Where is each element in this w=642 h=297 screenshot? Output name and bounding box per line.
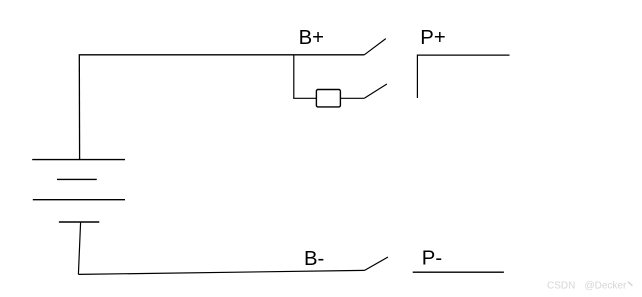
wire: precharge branch horizontal to resistor <box>293 97 316 99</box>
svg-text:P+: P+ <box>420 27 445 49</box>
svg-text:B-: B- <box>304 248 324 270</box>
battery BT1 long plate (second cell) <box>33 199 125 201</box>
battery BT1 long plate (top, +) <box>32 159 125 161</box>
switch K1 blade (B+ main contactor, open) <box>364 39 386 55</box>
wire: top bus from battery + terminal to B+ contactor <box>79 54 364 56</box>
wire: left vertical from top bus down to battery <box>78 54 80 159</box>
battery BT1 short plate <box>57 178 97 180</box>
wire: bottom bus from battery - to B- contactor <box>78 270 364 274</box>
wire: P+ output horizontal <box>417 54 509 56</box>
switch K2 blade (precharge contactor, open) <box>365 84 387 98</box>
svg-text:B+: B+ <box>299 27 324 49</box>
wire: P- output line <box>413 271 504 273</box>
battery BT1 short plate (bottom, -) <box>59 221 99 223</box>
svg-text:P-: P- <box>422 247 442 269</box>
wire: battery - lead down <box>78 222 80 274</box>
resistor R1 (precharge resistor, box) <box>316 90 340 107</box>
svg-text:@Decker: @Decker <box>585 281 627 292</box>
wire: resistor to precharge switch <box>340 97 364 99</box>
wire: precharge branch vertical from top bus <box>293 55 295 99</box>
wire: P+ output vertical stub <box>416 55 418 99</box>
switch K3 blade (B- contactor, open) <box>365 257 388 270</box>
svg-text:CSDN: CSDN <box>547 281 575 292</box>
